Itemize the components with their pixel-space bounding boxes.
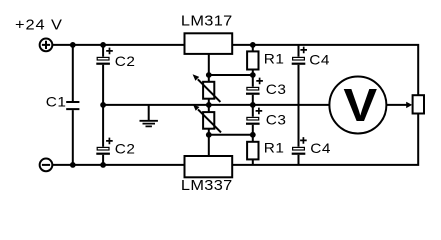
svg-text:R1: R1 [264, 141, 285, 156]
node bottom rail C1 [70, 162, 76, 168]
svg-text:LM337: LM337 [181, 178, 233, 194]
ground [140, 105, 158, 127]
wire pot P1 bottom lead [208, 99, 210, 105]
wire R1 top lead [252, 45, 254, 52]
wire C3 bottom to adj2 [252, 125, 254, 142]
wire R1 bottom lead [252, 159, 254, 165]
svg-text:C4: C4 [309, 53, 330, 68]
node bottom rail C2 [100, 162, 106, 168]
wire C4 bottom lead [298, 155, 300, 165]
svg-text:C2: C2 [115, 142, 136, 157]
node top rail C1 [70, 42, 76, 48]
svg-text:C4: C4 [310, 142, 331, 157]
node adj2 C3 [250, 132, 256, 138]
svg-text:+24 V: +24 V [15, 17, 63, 33]
capacitor C2 (top, electrolytic) [96, 48, 113, 65]
wire C1 upper lead [72, 45, 74, 101]
terminal - (negative input) [40, 159, 53, 172]
resistor R1 (top) [247, 51, 258, 69]
wire C2 column middle [102, 65, 104, 147]
wire LM337 adj pin [208, 135, 210, 156]
node mid rail pots [206, 102, 212, 108]
wire voltmeter to wiper [386, 104, 408, 106]
potentiometer P3 (output balance) [413, 95, 424, 113]
potentiometer P1 [193, 74, 221, 102]
node top rail C2 [100, 42, 106, 48]
svg-text:C3: C3 [266, 83, 287, 98]
wire C3 top to mid rail [252, 95, 254, 117]
node mid rail C3 [250, 102, 256, 108]
capacitor C4 (bottom, electrolytic) [292, 137, 307, 155]
wiper arrow of potentiometer P3 [406, 102, 412, 108]
potentiometer P2 [193, 104, 221, 132]
wire pot P2 top lead [208, 105, 210, 112]
wire bottom rail left [52, 164, 184, 166]
wire LM317 adj pin [208, 54, 210, 75]
terminal + (positive input) [40, 39, 53, 52]
wire C1 lower lead [72, 110, 74, 165]
svg-text:LM317: LM317 [181, 13, 233, 29]
svg-text:C3: C3 [266, 113, 287, 128]
node mid rail C2 [100, 102, 106, 108]
node top rail R1 [250, 42, 256, 48]
wire pot P1 top lead [208, 75, 210, 82]
wire R1 to adj1 node [252, 70, 254, 87]
node adj1 pot [206, 72, 212, 78]
wire C4 column crossing mid rail [298, 65, 300, 147]
capacitor C1 [66, 102, 79, 109]
svg-text:C1: C1 [46, 95, 67, 110]
resistor R1 (bottom) [247, 142, 258, 160]
voltmeter V [329, 77, 386, 134]
wire adj2 horizontal [209, 134, 253, 136]
svg-text:V: V [343, 80, 377, 132]
capacitor C4 (top, electrolytic) [292, 47, 307, 65]
wire right rail lower [232, 114, 418, 165]
node adj1 R1 [250, 72, 256, 78]
svg-text:C2: C2 [115, 55, 136, 70]
wire C2 column upper [102, 45, 104, 57]
wire top rail right [232, 45, 418, 95]
regulator U2 LM337 box [185, 156, 233, 177]
wire C2 column lower [102, 155, 104, 165]
wire C4 top lead [298, 45, 300, 57]
svg-text:R1: R1 [264, 52, 285, 67]
wire pot P2 bottom lead [208, 129, 210, 135]
wire top rail left [52, 44, 184, 46]
capacitor C2 (bottom, electrolytic) [96, 138, 112, 155]
wire mid rail (ground line) [103, 104, 329, 106]
regulator U1 LM317 box [185, 33, 233, 54]
node adj2 pot [206, 132, 212, 138]
capacitor C3 (top, electrolytic) [246, 78, 263, 95]
capacitor C3 (bottom, electrolytic) [246, 108, 262, 125]
wire adj1 horizontal [209, 74, 253, 76]
